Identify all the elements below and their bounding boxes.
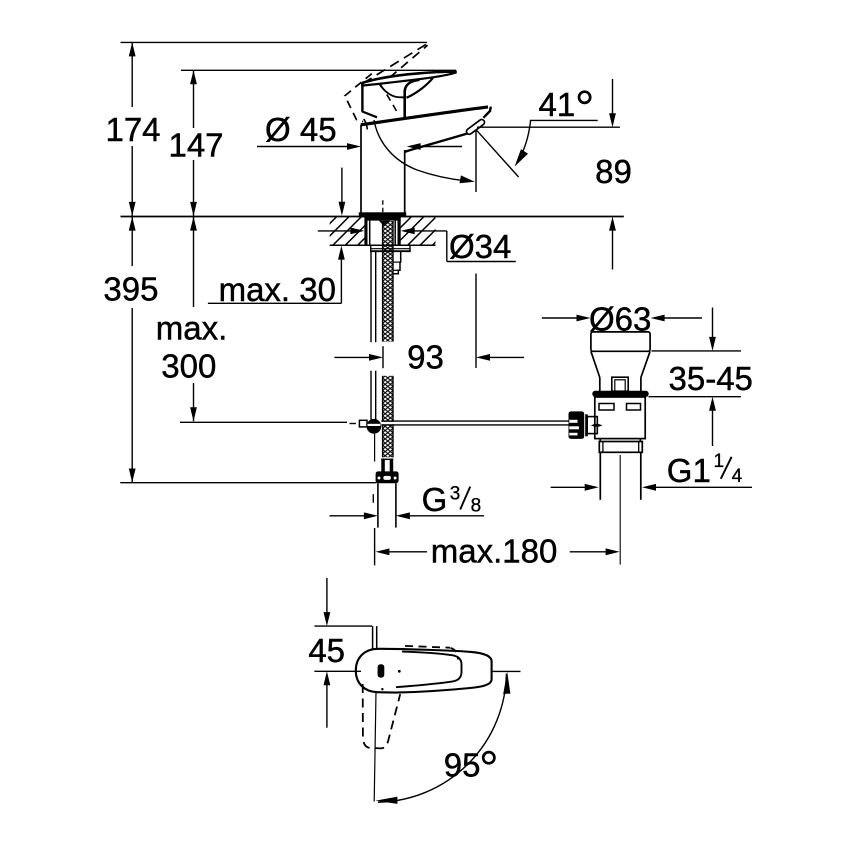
svg-text:Ø34: Ø34	[449, 228, 511, 265]
svg-text:max. 30: max. 30	[219, 271, 336, 308]
svg-text:35-45: 35-45	[669, 360, 753, 397]
svg-text:8: 8	[471, 495, 482, 516]
svg-text:45: 45	[308, 632, 345, 669]
svg-text:3: 3	[450, 483, 461, 504]
svg-text:1: 1	[714, 451, 725, 472]
svg-text:147: 147	[168, 127, 223, 164]
svg-text:Ø 45: Ø 45	[265, 111, 337, 148]
svg-text:174: 174	[105, 111, 160, 148]
svg-text:4: 4	[732, 466, 743, 487]
svg-text:300: 300	[161, 347, 216, 384]
svg-text:95: 95	[444, 747, 481, 784]
svg-text:395: 395	[103, 271, 158, 308]
svg-text:89: 89	[595, 153, 632, 190]
svg-text:93: 93	[407, 339, 444, 376]
svg-text:Ø63: Ø63	[589, 300, 651, 337]
svg-text:max.: max.	[156, 309, 228, 346]
svg-text:G1: G1	[667, 452, 711, 489]
svg-text:41: 41	[539, 86, 576, 123]
svg-text:max.180: max.180	[431, 533, 558, 570]
svg-text:G: G	[422, 481, 448, 518]
